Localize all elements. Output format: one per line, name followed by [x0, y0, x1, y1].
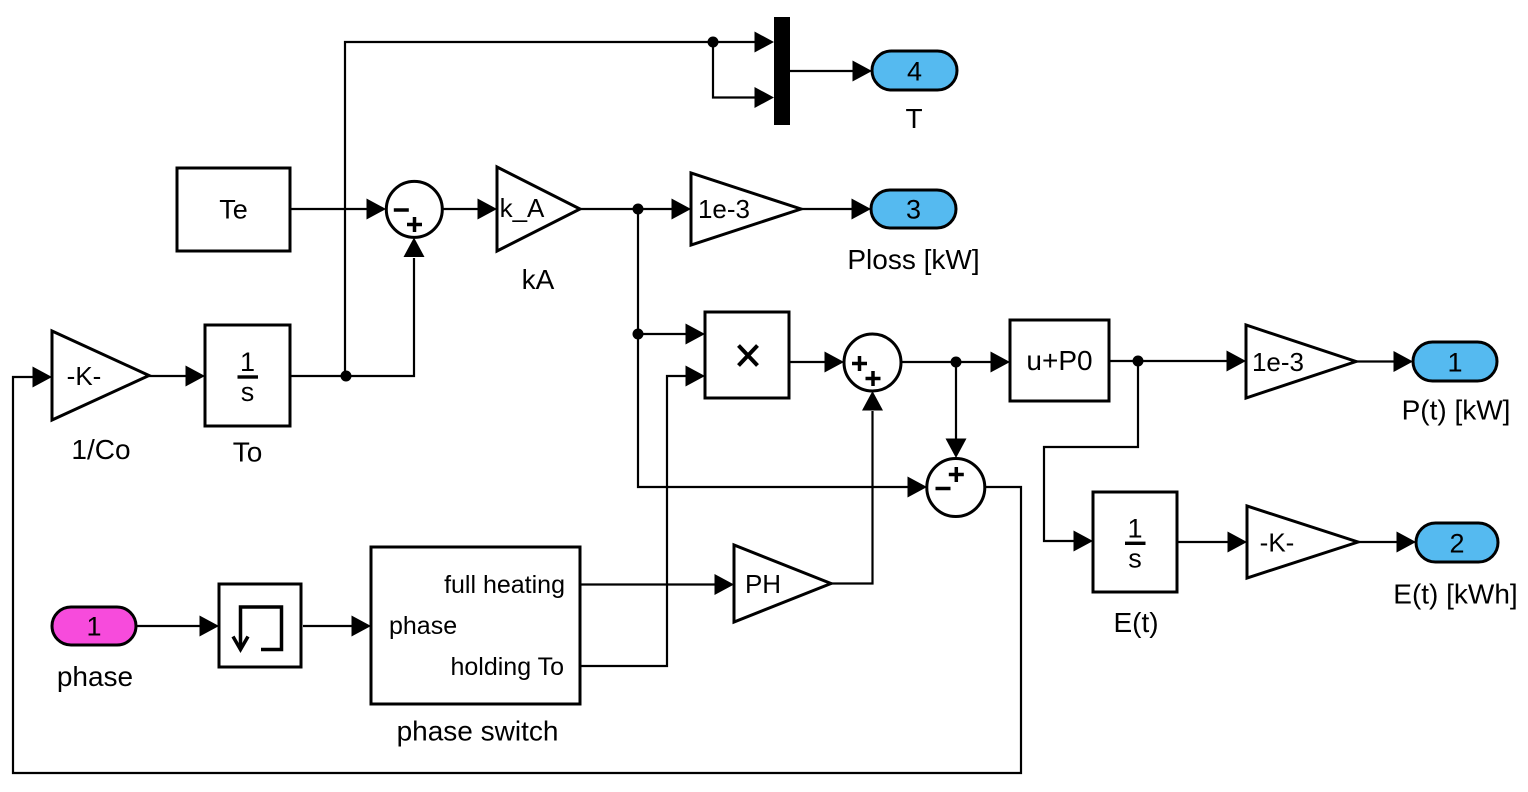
wire Sum1 to gain kA [443, 199, 498, 220]
label phase [57, 661, 133, 692]
wire u+P0 to gain 1e-3 (right) [1109, 351, 1246, 372]
svg-text:Ploss [kW]: Ploss [kW] [847, 244, 979, 275]
gain block PH [734, 545, 831, 622]
label P(t) [kW] [1402, 395, 1511, 426]
label E(t) [kWh] [1393, 579, 1517, 610]
product block [705, 312, 789, 398]
gain block -K- (right) [1247, 506, 1358, 578]
gain block 1e-3 (top) [691, 173, 801, 245]
svg-text:1/Co: 1/Co [71, 434, 130, 465]
wire kA output to gain 1e-3 (top), with branch down [580, 199, 691, 220]
gain block 1e-3 (right) [1246, 325, 1356, 398]
label 1/Co [71, 434, 130, 465]
sum block Sum3 (plus top, minus left) [927, 459, 985, 517]
svg-text:E(t) [kWh]: E(t) [kWh] [1393, 579, 1517, 610]
svg-text:PH: PH [745, 569, 781, 599]
label kA [522, 264, 555, 295]
wire gain 1e-3 (right) to outport 1 [1356, 351, 1413, 372]
wire phase switch full heating output to gain PH [580, 574, 734, 595]
constant block Te [177, 168, 290, 251]
svg-text:P(t) [kW]: P(t) [kW] [1402, 395, 1511, 426]
wire gain 1/Co to To integrator [149, 366, 205, 387]
label T [905, 103, 922, 134]
svg-text:k_A: k_A [500, 193, 545, 223]
wire branch to Product input 1 [638, 324, 705, 345]
svg-text:full heating: full heating [444, 571, 565, 599]
wire inport phase to relay block [136, 616, 219, 637]
svg-text:1: 1 [240, 347, 255, 377]
svg-text:-K-: -K- [1260, 528, 1295, 558]
wire Sum2 output to u+P0 block [901, 352, 1010, 373]
inport phase [52, 607, 136, 645]
junction To output [341, 371, 352, 382]
svg-text:-K-: -K- [67, 361, 102, 391]
svg-text:u+P0: u+P0 [1026, 345, 1092, 376]
junction mux input [708, 37, 719, 48]
gain block k_A [497, 167, 580, 251]
junction kA output [633, 204, 644, 215]
wire branch from u+P0 output down to E(t) integrator [1044, 361, 1138, 552]
svg-text:1: 1 [1127, 514, 1142, 544]
svg-text:kA: kA [522, 264, 555, 295]
svg-text:T: T [905, 103, 922, 134]
wire gain PH output up to Sum2 bottom input [831, 391, 883, 584]
integrator block E(t) [1093, 492, 1177, 592]
junction product input branch [633, 329, 644, 340]
label To [233, 437, 263, 468]
label E(t) [1113, 607, 1158, 638]
wire relay block to phase switch input [303, 616, 371, 637]
svg-text:1: 1 [86, 612, 101, 642]
sum block Sum1 (minus, plus) [386, 181, 442, 237]
svg-text:holding To: holding To [450, 653, 564, 681]
label Ploss [kW] [847, 244, 979, 275]
sum block Sum2 (plus, plus) [844, 334, 901, 391]
svg-text:2: 2 [1449, 529, 1464, 559]
outport 3 [871, 190, 956, 228]
svg-text:1e-3: 1e-3 [1252, 347, 1304, 377]
svg-text:E(t): E(t) [1113, 607, 1158, 638]
svg-text:phase: phase [389, 612, 457, 640]
svg-text:phase switch: phase switch [397, 716, 559, 747]
wire gain 1e-3 (top) to outport 3 [801, 199, 871, 220]
gain block 1/Co [52, 331, 149, 420]
svg-text:1: 1 [1447, 348, 1462, 378]
wire E(t) integrator to gain -K- (right) [1177, 532, 1247, 553]
relay block (hysteresis icon) [219, 584, 301, 667]
svg-text:1e-3: 1e-3 [698, 194, 750, 224]
mux block [774, 17, 790, 125]
wire feedback loop: Sum3 output right, down, left along bottom, up to 1/Co input [13, 367, 1021, 774]
svg-text:s: s [241, 377, 255, 407]
outport 1 [1413, 342, 1497, 381]
svg-text:Te: Te [219, 195, 248, 225]
integrator block To [205, 325, 290, 426]
wire To output riser up to Mux top input [345, 32, 774, 377]
svg-text:3: 3 [906, 195, 921, 225]
wire Mux second input drop [713, 42, 774, 108]
wire Te to Sum1 [290, 199, 386, 220]
wire Product output to Sum2 [789, 352, 844, 373]
svg-text:phase: phase [57, 661, 133, 692]
svg-text:s: s [1128, 544, 1142, 574]
junction Sum2 output [951, 357, 962, 368]
subsystem block phase switch [371, 547, 580, 704]
block u+P0 [1010, 320, 1109, 401]
label phase switch [397, 716, 559, 747]
svg-text:4: 4 [907, 57, 922, 87]
outport 2 [1416, 523, 1498, 562]
junction u+P0 output [1133, 356, 1144, 367]
wire gain -K- (right) to outport 2 [1358, 532, 1416, 553]
wire phase switch holding To output up to Product input 2 [580, 366, 705, 667]
wire branch down from Sum2 output to Sum3 top input [946, 362, 967, 458]
wire To integrator output to Sum1 bottom input [290, 238, 425, 377]
wire kA branch vertical down to Sum3 left input [638, 209, 927, 498]
wire Mux output to outport 4 [790, 61, 872, 82]
outport 4 [872, 51, 957, 90]
svg-text:To: To [233, 437, 263, 468]
